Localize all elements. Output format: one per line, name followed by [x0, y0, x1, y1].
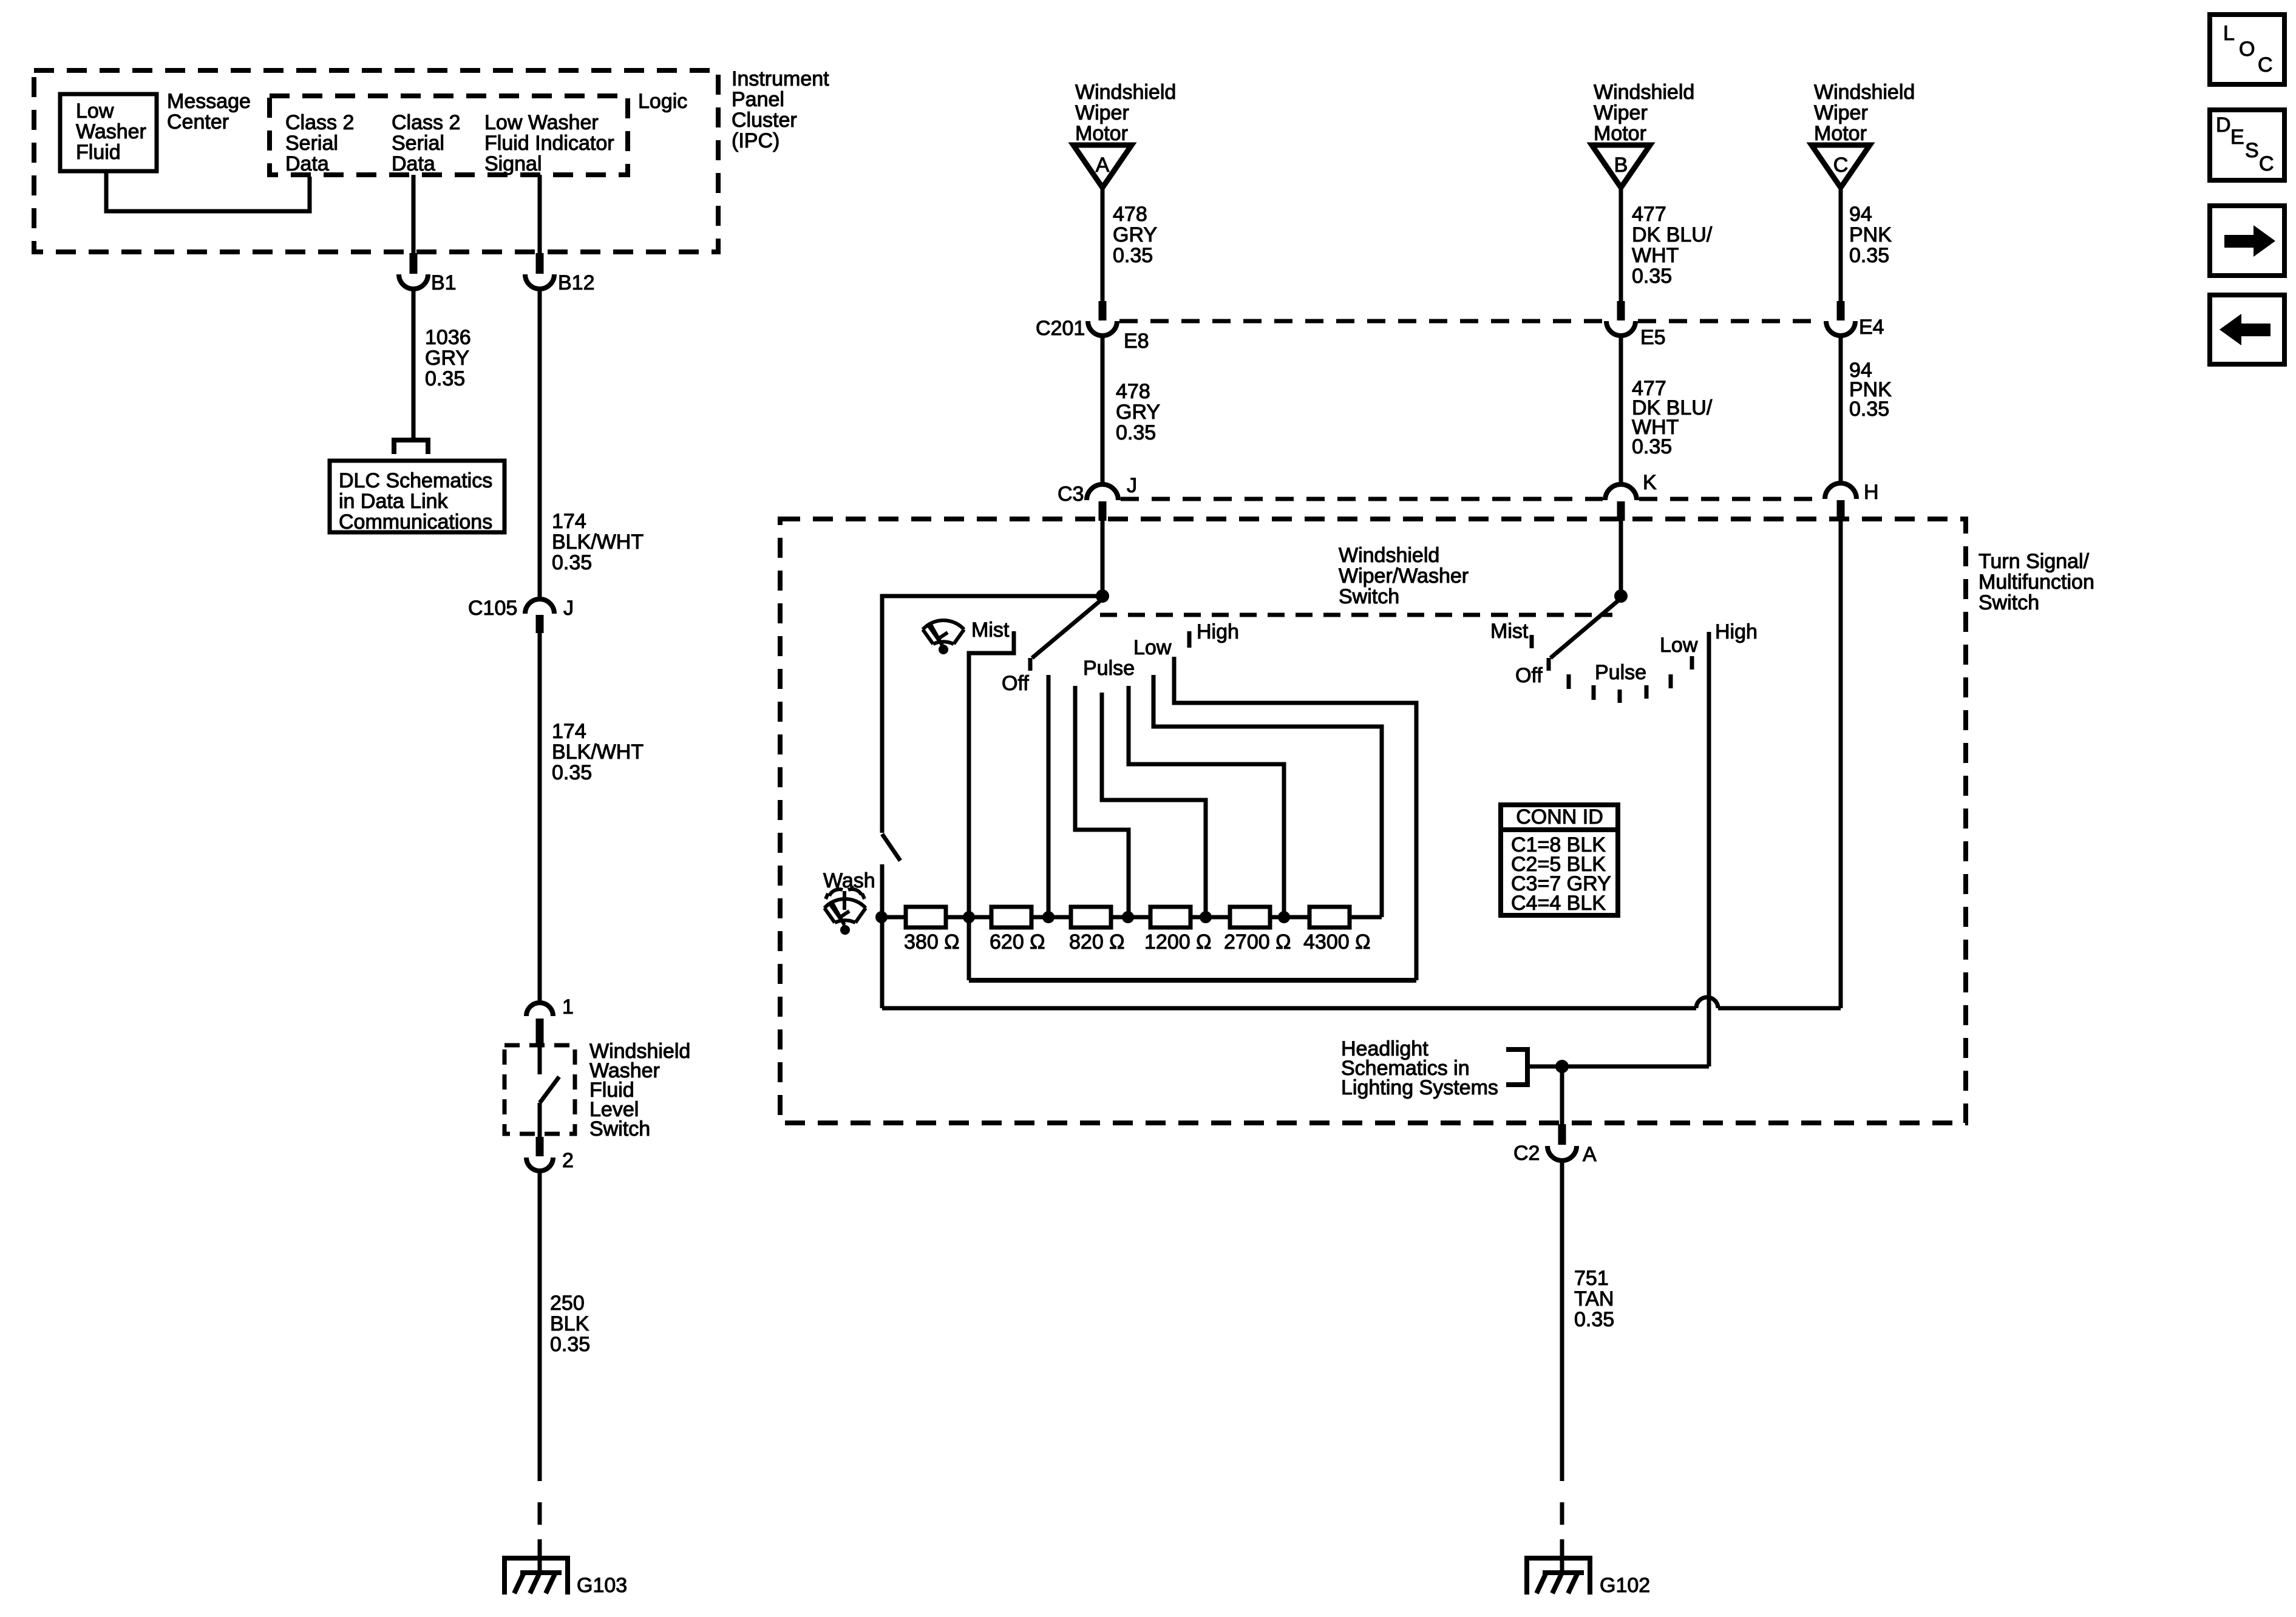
svg-text:TAN: TAN	[1574, 1287, 1614, 1310]
svg-text:C: C	[2258, 53, 2273, 76]
svg-text:Switch: Switch	[589, 1117, 650, 1141]
svg-text:94: 94	[1849, 203, 1872, 226]
svg-text:G102: G102	[1600, 1574, 1650, 1597]
svg-text:GRY: GRY	[425, 347, 469, 370]
svg-text:C: C	[1833, 154, 1849, 177]
svg-text:Low Washer: Low Washer	[484, 111, 599, 134]
svg-text:0.35: 0.35	[1632, 435, 1672, 458]
svg-text:0.35: 0.35	[552, 761, 592, 784]
svg-text:E5: E5	[1640, 326, 1666, 349]
svg-text:174: 174	[552, 720, 586, 743]
svg-text:S: S	[2245, 139, 2259, 162]
svg-text:820 Ω: 820 Ω	[1069, 931, 1125, 954]
svg-text:Windshield: Windshield	[1339, 544, 1439, 567]
svg-text:Multifunction: Multifunction	[1978, 571, 2094, 594]
svg-text:O: O	[2239, 38, 2255, 61]
svg-text:1: 1	[562, 995, 574, 1019]
svg-text:4300 Ω: 4300 Ω	[1303, 931, 1371, 954]
svg-text:C105: C105	[468, 597, 517, 620]
svg-text:Class 2: Class 2	[285, 111, 354, 134]
svg-text:D: D	[2216, 114, 2231, 137]
svg-text:Off: Off	[1515, 664, 1543, 687]
svg-text:Turn Signal/: Turn Signal/	[1978, 550, 2090, 573]
svg-text:0.35: 0.35	[1574, 1308, 1614, 1331]
svg-text:B12: B12	[558, 271, 595, 294]
svg-text:WHT: WHT	[1632, 244, 1679, 267]
svg-text:Logic: Logic	[638, 90, 687, 113]
svg-text:250: 250	[550, 1292, 585, 1315]
svg-text:Data: Data	[285, 152, 329, 175]
svg-text:Serial: Serial	[285, 132, 338, 155]
svg-text:GRY: GRY	[1113, 223, 1157, 246]
svg-text:174: 174	[552, 510, 586, 533]
svg-text:Wiper: Wiper	[1814, 101, 1868, 124]
svg-text:Fluid: Fluid	[76, 141, 121, 164]
svg-text:751: 751	[1574, 1267, 1609, 1290]
svg-text:K: K	[1643, 471, 1657, 494]
svg-text:Switch: Switch	[1978, 591, 2039, 614]
svg-text:L: L	[2223, 22, 2235, 45]
svg-text:620 Ω: 620 Ω	[990, 931, 1045, 954]
svg-text:Motor: Motor	[1075, 122, 1128, 145]
svg-text:Class 2: Class 2	[392, 111, 460, 134]
svg-text:Low: Low	[1660, 634, 1698, 657]
svg-text:C4=4 BLK: C4=4 BLK	[1511, 892, 1606, 915]
svg-text:Data: Data	[392, 152, 435, 175]
svg-text:in Data Link: in Data Link	[339, 490, 449, 513]
svg-text:Wiper: Wiper	[1075, 101, 1129, 124]
svg-text:Low: Low	[1133, 636, 1172, 659]
svg-text:DK BLU/: DK BLU/	[1632, 223, 1713, 246]
svg-text:Washer: Washer	[76, 120, 146, 143]
svg-text:G103: G103	[577, 1574, 627, 1597]
svg-text:Windshield: Windshield	[1594, 81, 1694, 104]
svg-text:A: A	[1583, 1143, 1597, 1166]
svg-text:Mist: Mist	[971, 619, 1010, 642]
svg-text:Panel: Panel	[732, 88, 784, 111]
svg-text:DLC Schematics: DLC Schematics	[339, 469, 492, 492]
svg-text:J: J	[1127, 474, 1137, 497]
svg-text:J: J	[563, 597, 574, 620]
svg-text:(IPC): (IPC)	[732, 129, 779, 152]
svg-text:Serial: Serial	[392, 132, 444, 155]
svg-text:CONN ID: CONN ID	[1516, 805, 1603, 829]
svg-text:0.35: 0.35	[552, 551, 592, 574]
svg-text:BLK: BLK	[550, 1312, 589, 1335]
svg-text:GRY: GRY	[1116, 401, 1160, 424]
svg-text:BLK/WHT: BLK/WHT	[552, 741, 644, 764]
svg-text:Wiper/Washer: Wiper/Washer	[1339, 564, 1469, 588]
svg-text:High: High	[1715, 620, 1758, 643]
svg-text:E4: E4	[1859, 316, 1884, 339]
svg-text:C2: C2	[1513, 1142, 1540, 1165]
svg-text:0.35: 0.35	[1849, 244, 1889, 267]
svg-text:E: E	[2230, 126, 2244, 149]
svg-text:BLK/WHT: BLK/WHT	[552, 531, 644, 554]
svg-text:Motor: Motor	[1594, 122, 1646, 145]
svg-text:0.35: 0.35	[425, 367, 465, 390]
svg-text:0.35: 0.35	[1632, 265, 1672, 288]
svg-text:High: High	[1197, 620, 1239, 643]
svg-text:Cluster: Cluster	[732, 109, 797, 132]
svg-text:Pulse: Pulse	[1083, 657, 1135, 680]
svg-text:Lighting Systems: Lighting Systems	[1341, 1076, 1498, 1099]
svg-text:C: C	[2259, 152, 2274, 175]
svg-text:B: B	[1614, 154, 1628, 177]
svg-text:Windshield: Windshield	[1814, 81, 1915, 104]
svg-text:C201: C201	[1036, 317, 1085, 340]
svg-text:1036: 1036	[425, 326, 471, 349]
svg-text:Windshield: Windshield	[1075, 81, 1176, 104]
svg-text:0.35: 0.35	[1849, 398, 1889, 421]
svg-text:0.35: 0.35	[550, 1333, 590, 1356]
svg-text:Instrument: Instrument	[732, 67, 829, 90]
svg-text:Communications: Communications	[339, 510, 492, 534]
svg-text:Mist: Mist	[1490, 620, 1529, 643]
svg-text:1200 Ω: 1200 Ω	[1144, 931, 1212, 954]
svg-text:478: 478	[1113, 203, 1147, 226]
svg-text:Off: Off	[1002, 672, 1029, 695]
svg-text:380 Ω: 380 Ω	[904, 931, 960, 954]
svg-text:Wiper: Wiper	[1594, 101, 1648, 124]
svg-text:A: A	[1096, 154, 1110, 177]
svg-text:477: 477	[1632, 203, 1666, 226]
svg-text:PNK: PNK	[1849, 223, 1892, 246]
svg-text:H: H	[1864, 481, 1879, 504]
svg-text:Low: Low	[76, 100, 114, 123]
svg-text:Pulse: Pulse	[1595, 661, 1646, 684]
svg-text:Signal: Signal	[484, 152, 542, 175]
svg-text:478: 478	[1116, 380, 1150, 403]
svg-text:Message: Message	[167, 90, 251, 113]
svg-text:Motor: Motor	[1814, 122, 1867, 145]
svg-text:Fluid Indicator: Fluid Indicator	[484, 132, 614, 155]
svg-text:B1: B1	[431, 271, 457, 294]
svg-text:C3: C3	[1058, 483, 1084, 506]
svg-text:E8: E8	[1124, 330, 1149, 353]
svg-text:0.35: 0.35	[1116, 421, 1156, 444]
svg-text:Wash: Wash	[823, 869, 875, 892]
svg-text:0.35: 0.35	[1113, 244, 1153, 267]
svg-text:Center: Center	[167, 110, 229, 134]
svg-text:2: 2	[562, 1149, 574, 1172]
svg-text:Switch: Switch	[1339, 585, 1399, 608]
svg-text:2700 Ω: 2700 Ω	[1224, 931, 1291, 954]
